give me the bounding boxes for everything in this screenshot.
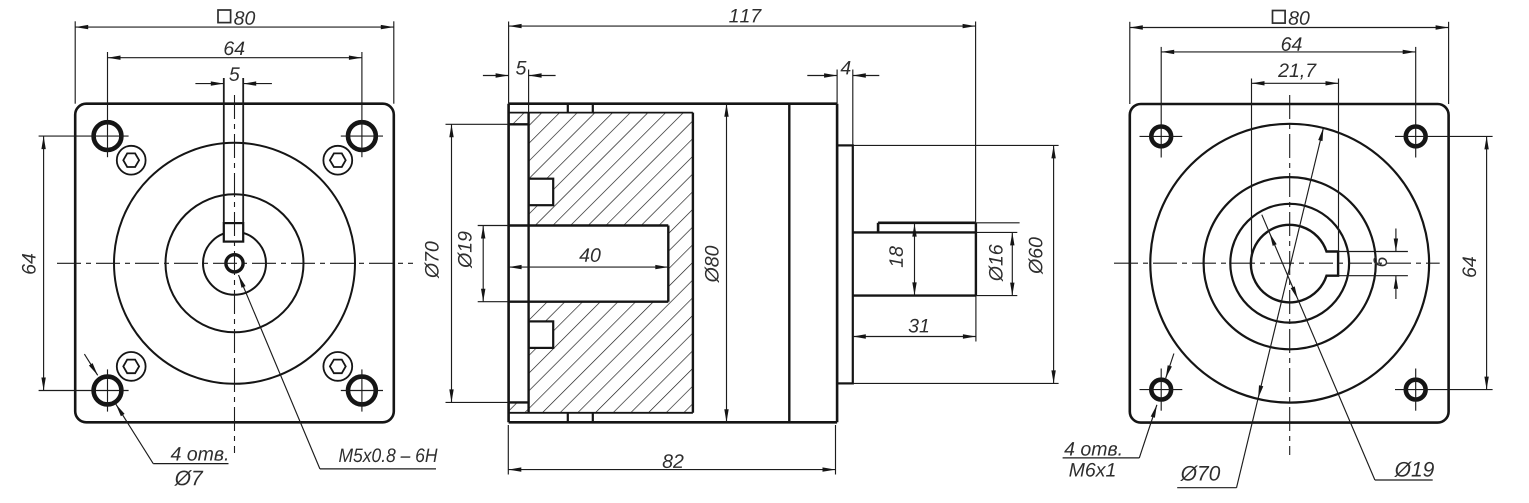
right view dim: 64 top dimension line	[1161, 51, 1416, 53]
middle view: housing bottom line	[509, 421, 837, 424]
left view label: D7	[174, 470, 203, 486]
right view dim text: 21.7	[1278, 63, 1317, 79]
middle view dim: D19 extension lines	[478, 225, 509, 227]
right view label: D19	[1394, 461, 1434, 477]
left view dim: 5 keyway dimension line	[195, 83, 223, 85]
right view: circle D70	[1150, 124, 1429, 403]
right view dim: 21.7 dimension line	[1252, 82, 1339, 84]
middle view dim text: D60	[1028, 237, 1042, 274]
left view: hex socket screw 1	[117, 146, 146, 175]
middle view dim text: D19	[458, 231, 472, 268]
left view dim: square-80 extension lines	[74, 21, 76, 103]
left view: keyway rectangle at bore	[224, 223, 243, 242]
left view label: M5x0.8-6H	[339, 448, 437, 462]
middle view: shaft key top line	[878, 222, 976, 225]
left view: square mounting flange plate 80x80	[75, 104, 394, 423]
left view dim: 64 vertical dimension line	[43, 136, 45, 390]
middle view dim text: 18	[889, 246, 903, 267]
middle view: pilot D70 top edge	[509, 123, 529, 125]
middle view: top keyway slot marks	[567, 104, 569, 113]
right view: corner hole M6 top-right	[1406, 126, 1426, 146]
middle view dim text: 31	[909, 319, 929, 333]
left view: keyway slot side lines (width 5)	[223, 78, 225, 223]
right view: circle D30	[1230, 204, 1349, 323]
right view: corner hole M6 top-left	[1151, 126, 1171, 146]
right view dim text: 64 top	[1282, 37, 1302, 51]
left view: corner hole D7 bottom-right	[348, 377, 376, 405]
right view: square flange plate 80x80	[1130, 104, 1449, 423]
middle view dim: D80 dimension line	[726, 104, 728, 423]
right view leader: D70 callout line	[1237, 128, 1324, 488]
middle view: inner top line D76	[509, 112, 693, 114]
middle view: pilot D70 bottom edge	[509, 401, 529, 403]
middle view dim text: 117	[729, 9, 762, 22]
left view: corner hole D7 bottom-left	[94, 377, 122, 405]
left view dim text: 5	[229, 67, 239, 81]
right view: crosshair top-right hole	[1415, 47, 1417, 158]
middle view: internal partition line	[788, 104, 790, 423]
left view: vertical centerline	[234, 95, 236, 453]
right view dim: 21.7 extension lines	[1251, 79, 1253, 264]
left view: corner hole D7 top-left	[94, 122, 122, 150]
left view dim text: 64 top	[224, 41, 244, 55]
middle view dim: D60 dimension line	[1053, 145, 1055, 383]
middle view: bore D19 bottom line	[509, 301, 669, 303]
middle view: shaft end face	[975, 223, 977, 296]
middle view dim: D16 dimension line	[1011, 232, 1013, 295]
middle view: shaft key left edge	[877, 223, 880, 233]
middle view dim: 117 dimension line	[509, 25, 976, 27]
middle view: tapped hole notch upper	[529, 179, 554, 206]
middle view dim: 31 dimension line	[853, 336, 976, 338]
middle view dim text: 4	[841, 61, 851, 74]
middle view dim: 18 dimension line	[914, 224, 916, 296]
left view label: 4 otv.	[171, 447, 227, 461]
right view: bore D19 with keyway	[1251, 225, 1338, 303]
middle view: hatch pattern cross-section	[529, 113, 693, 413]
left view: corner hole D7 top-right	[348, 122, 376, 150]
right view: crosshair top-left hole	[1160, 47, 1162, 158]
middle view dim: key top extension line	[976, 222, 1020, 224]
left view leader: M5 thread callout line	[239, 275, 320, 469]
middle view dim: 117 extension lines	[508, 22, 510, 104]
right view dim: square-80 extension lines	[1129, 22, 1131, 104]
right view leader: D19 callout line	[1262, 215, 1375, 480]
right view dim: square-80 dimension line	[1130, 27, 1449, 29]
right view: crosshair bottom-right hole	[1415, 369, 1417, 411]
left view dim: square-80 dimension line	[75, 26, 394, 28]
middle view dim text: 82	[663, 454, 684, 468]
middle view: bore D19 top line	[509, 224, 669, 226]
middle view: shaft top line	[853, 231, 976, 233]
middle view: recess bottom face line	[527, 113, 529, 413]
right view dim text: square-80	[1273, 11, 1286, 24]
middle view: shaft bottom line	[853, 294, 976, 296]
middle view dim: D70 extension lines	[446, 123, 509, 125]
right view: crosshair bottom-left hole	[1160, 369, 1162, 411]
right view label: 4 otv.	[1064, 442, 1120, 456]
right view label: M6x1	[1069, 463, 1114, 477]
middle view dim: 82 extension lines	[507, 425, 509, 475]
middle view: flange block right edge	[692, 113, 694, 413]
middle view dim text: 5	[516, 61, 526, 75]
middle view: housing right face line	[836, 104, 839, 423]
middle view: inner bottom line D76	[509, 412, 693, 414]
middle view dim: D70 dimension line	[451, 124, 453, 402]
middle view dim text: D16	[989, 244, 1003, 281]
left view leader: 4 holes D7 callout line	[84, 354, 97, 375]
right view dim: 64 vertical dimension line	[1486, 136, 1488, 389]
left view: hex socket screw 3	[117, 352, 146, 381]
left view: crosshair top-left hole	[107, 52, 109, 157]
left view: inner circle D34.5	[166, 194, 304, 332]
middle view dim: D60 extension lines	[853, 144, 1059, 146]
left view: crosshair bottom-left hole	[107, 369, 109, 411]
middle view dim: D19 dimension line	[482, 226, 484, 302]
middle view: tapped hole notch lower	[529, 321, 554, 348]
middle view: bore end wall	[667, 226, 669, 302]
right view dim text: 64 vertical	[1462, 257, 1476, 277]
middle view: output boss D60 plate	[837, 145, 853, 383]
right view: vertical centerline	[1289, 95, 1291, 455]
left view: tapped hole M5 (bold circle)	[226, 255, 243, 272]
middle view dim text: D70	[425, 241, 439, 278]
left view dim text: square-80	[218, 10, 231, 23]
middle view dim: 40 dimension line	[509, 266, 669, 268]
left view dim: 64 top dimension line	[108, 57, 362, 59]
right view: corner hole M6 bottom-right	[1406, 380, 1426, 400]
left view: horizontal centerline	[57, 262, 413, 264]
right view dim text: 6	[1373, 257, 1387, 267]
middle view dim text: D80	[705, 246, 719, 283]
right view: corner hole M6 bottom-left	[1151, 380, 1171, 400]
middle view dim: 5 dimension line	[483, 75, 509, 77]
right view leader: 4 holes M6 callout line	[1166, 354, 1174, 379]
left view: shaft hole circle D16	[203, 232, 266, 295]
middle view dim: 31 extension line	[975, 296, 977, 342]
left view dim text: 64 vertical	[22, 254, 36, 274]
middle view dim text: 40	[579, 248, 600, 262]
left view: hex socket screw 2	[323, 146, 352, 175]
right view: circle D43	[1204, 177, 1376, 349]
right view: horizontal centerline	[1114, 262, 1440, 264]
middle view: housing left face line	[507, 104, 510, 423]
middle view dim: D16 extension lines	[976, 231, 1017, 233]
left view: crosshair top-right hole	[361, 52, 363, 157]
middle view: bottom keyway slot marks	[567, 413, 569, 423]
right view label: D70	[1180, 465, 1220, 481]
middle view: housing top line	[509, 102, 837, 105]
left view: hex socket screw 4	[323, 352, 352, 381]
middle view dim: 5 extension line	[528, 70, 530, 113]
right view dim: 6 dimension line	[1395, 229, 1397, 252]
left view: crosshair bottom-right hole	[361, 369, 363, 411]
left view: outer circle D60	[114, 143, 355, 384]
right view dim: 6 extension lines	[1338, 251, 1408, 253]
middle view dim: 4 dimension line	[807, 75, 837, 77]
middle view dim: 4 extension lines	[836, 70, 838, 104]
middle view dim: 82 dimension line	[508, 469, 835, 471]
